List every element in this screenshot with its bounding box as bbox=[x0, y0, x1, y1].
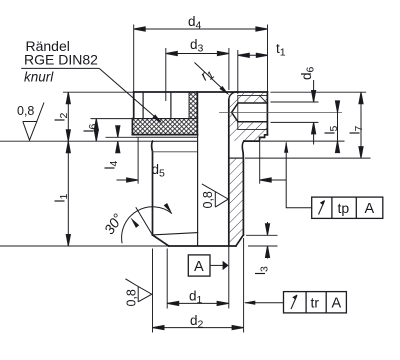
center section-boundary vertical bbox=[197, 135, 199, 246]
ext d5 right bbox=[259, 141, 261, 183]
svg-text:A: A bbox=[332, 296, 342, 312]
ext top face left (for l2/l1) bbox=[63, 91, 133, 93]
svg-text:RGE DIN82: RGE DIN82 bbox=[24, 52, 98, 68]
bottom face bbox=[169, 245, 236, 247]
under-head step edge line (left, thin) bbox=[137, 136, 197, 138]
svg-text:A: A bbox=[365, 201, 375, 217]
KNURL FILL GROUP bbox=[132, 92, 197, 135]
r1 arrowhead bbox=[219, 86, 230, 97]
head inner vertical b bbox=[170, 92, 172, 119]
ext d3 left bbox=[165, 48, 167, 101]
hub left bottom chamfer bbox=[153, 235, 169, 246]
knurl strip right edge (centerline upper) bbox=[196, 92, 198, 135]
head right section hatch lower bbox=[229, 112, 267, 140]
hub left outer edge with notch bbox=[151, 141, 154, 235]
ext knurl band top left (for l6) bbox=[91, 118, 133, 120]
dim l4 lower bbox=[117, 141, 119, 151]
ext step edge left (for l4) bbox=[106, 136, 137, 138]
svg-text:0,8: 0,8 bbox=[17, 104, 34, 118]
ext d1 left bbox=[166, 249, 168, 309]
tp leader bbox=[286, 143, 312, 208]
R1 LEADER bbox=[195, 63, 231, 97]
KNURL CALLOUT bbox=[21, 38, 164, 125]
dim l2 bbox=[67, 92, 69, 141]
tp runout symbol bbox=[319, 201, 325, 215]
hub right wall hatch bbox=[229, 159, 243, 246]
drill cone bbox=[232, 103, 238, 122]
left groove end circle line bbox=[153, 151, 197, 153]
knurl band left edge bbox=[131, 119, 133, 135]
countersink chamfer bbox=[260, 95, 267, 103]
knurl band bottom edge bbox=[132, 134, 197, 136]
thread end boundary bbox=[237, 95, 239, 129]
dim l7 bbox=[360, 92, 362, 158]
ext l3 top right bbox=[246, 234, 278, 236]
dim l5 bbox=[337, 103, 339, 150]
dim l3 upper bbox=[267, 222, 269, 235]
head inner vertical a bbox=[142, 92, 144, 119]
side hole minor bottom bbox=[238, 121, 267, 123]
head left silhouette bbox=[133, 92, 135, 119]
top face bbox=[134, 91, 268, 93]
svg-text:knurl: knurl bbox=[24, 70, 54, 85]
tr runout symbol bbox=[291, 295, 297, 309]
side hole minor top bbox=[238, 102, 267, 104]
svg-text:0,8: 0,8 bbox=[201, 191, 215, 208]
recess mouth fillet r1 bbox=[229, 92, 237, 100]
ROUGHNESS SYMBOL top-left 0,8 bbox=[23, 103, 44, 141]
head bottom right step1 bbox=[244, 135, 268, 141]
head right section hatch upper bbox=[229, 93, 267, 113]
tr leader bbox=[245, 302, 284, 304]
head right face bbox=[266, 92, 268, 135]
TOLERANCE FRAME tr bbox=[244, 292, 347, 313]
datum A box bbox=[188, 255, 210, 276]
PART OUTLINE GROUP bbox=[132, 92, 267, 246]
ext d5 left bbox=[137, 138, 139, 184]
ext t1 left (thread end) bbox=[237, 50, 239, 94]
dim l1 bbox=[67, 141, 69, 246]
svg-text:A: A bbox=[194, 259, 204, 275]
dim l6 bbox=[95, 119, 97, 142]
tr leader arrow bbox=[244, 301, 256, 305]
30 DEG ANGLE bbox=[122, 207, 172, 244]
side hole major dia bottom (thin) bbox=[238, 128, 268, 130]
ROUGHNESS SYMBOL bore 0,8 (rotated, on bore wall) bbox=[202, 184, 228, 207]
ext hole minor bottom (for d6) bbox=[271, 121, 319, 123]
dim t1 bbox=[238, 54, 268, 56]
ext d3 right bbox=[228, 48, 230, 90]
knurl band top edge bbox=[132, 118, 197, 120]
dim d4 bbox=[134, 28, 268, 30]
knurl leader line bbox=[99, 68, 160, 121]
knurl leader arrowhead bbox=[152, 114, 163, 125]
r1 leader line bbox=[195, 63, 228, 94]
ext under-head face right (for tp, l5) bbox=[261, 140, 345, 142]
tr frame boxes bbox=[284, 292, 347, 313]
DATUM A bbox=[188, 255, 228, 276]
tp leader arrow bbox=[284, 141, 288, 153]
ext top face right (for l7) bbox=[271, 91, 367, 93]
angle arc arrowheads bbox=[129, 216, 139, 228]
svg-text:tp: tp bbox=[338, 200, 350, 216]
dim d5 right bbox=[260, 179, 287, 181]
dim l3 lower bbox=[267, 246, 269, 259]
bore wall right (section) bbox=[228, 100, 230, 246]
dim d6 upper bbox=[313, 80, 315, 102]
DIMENSION LINES GROUP bbox=[66, 27, 363, 330]
ext bottom face long baseline (for l1) bbox=[0, 245, 169, 247]
ext d2 right bbox=[243, 238, 245, 333]
EXTENSION LINES GROUP bbox=[0, 25, 371, 333]
angle arc bbox=[122, 207, 172, 244]
ext groove line right (for l7) bbox=[245, 157, 371, 159]
side hole centerline bbox=[220, 111, 342, 113]
chamfer top circle edge line bbox=[153, 233, 198, 235]
ext hole minor top (for d6) bbox=[271, 101, 319, 103]
groove bottom line in section bbox=[229, 157, 244, 159]
ext d4/t1 right bbox=[267, 25, 269, 92]
TOLERANCE FRAME tp bbox=[284, 141, 383, 218]
svg-text:0,8: 0,8 bbox=[125, 289, 139, 306]
ROUGHNESS SYMBOL bottom 0,8 (rotated, on d2 ext) bbox=[125, 279, 151, 302]
dim d3 bbox=[166, 53, 229, 55]
dim d1 bbox=[167, 302, 228, 304]
dim d5 left bbox=[117, 179, 139, 181]
svg-text:tr: tr bbox=[311, 295, 320, 311]
hub right outer edge with relief groove bbox=[242, 141, 244, 235]
tp frame boxes bbox=[312, 197, 383, 218]
knurl strip fill bbox=[189, 92, 197, 119]
callout underline bbox=[21, 67, 99, 69]
ext d2 left bbox=[152, 249, 154, 333]
SIDE TAPPED HOLE GROUP bbox=[220, 95, 342, 129]
datum leader bbox=[210, 264, 223, 266]
SECTION HATCH GROUP bbox=[229, 93, 267, 246]
knurl strip left edge bbox=[188, 92, 190, 119]
ext d1 right (bore wall extended) bbox=[228, 246, 230, 309]
dim d6 lower bbox=[313, 122, 315, 144]
ext d4 left bbox=[133, 25, 135, 92]
side hole major dia top (thin) bbox=[238, 94, 268, 96]
knurl band fill bbox=[132, 119, 197, 135]
ext under-head face long baseline (for l2,l6,l4) bbox=[0, 140, 152, 142]
ext l3 bottom right bbox=[248, 245, 278, 247]
dim d2 bbox=[153, 327, 244, 329]
dim l4 upper bbox=[117, 128, 119, 138]
DIMENSION LABELS GROUP bbox=[53, 14, 366, 331]
hub right bottom chamfer bbox=[236, 235, 244, 246]
under-head face edge line (left, thin) bbox=[153, 140, 197, 142]
datum filled triangle bbox=[223, 261, 229, 270]
chamfer construction line bbox=[136, 207, 153, 235]
